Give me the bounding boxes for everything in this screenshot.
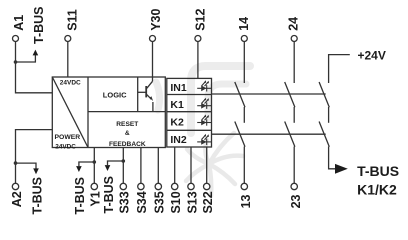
svg-text:A1: A1	[12, 15, 26, 31]
svg-text:A2: A2	[10, 191, 24, 207]
svg-text:24VDC: 24VDC	[60, 79, 81, 86]
wire S34	[140, 148, 142, 184]
svg-text:S22: S22	[201, 191, 215, 213]
junction dot Y1	[93, 160, 97, 164]
wire S12	[197, 42, 199, 79]
terminal A2 circle	[12, 183, 18, 189]
wire S33 branch	[108, 148, 124, 184]
wire A1 down	[16, 42, 53, 93]
terminal S34 circle	[138, 183, 144, 189]
contact K2 path 23-24	[285, 82, 295, 183]
svg-text:24: 24	[287, 17, 301, 31]
svg-text:Y30: Y30	[149, 9, 163, 31]
svg-text:S35: S35	[153, 191, 167, 213]
divider power/logic	[87, 77, 89, 148]
wire S22	[206, 147, 208, 183]
wire Y1 branch	[79, 148, 94, 184]
contact K1 path 13-14	[235, 82, 245, 183]
svg-text:&: &	[125, 130, 130, 137]
svg-text:IN1: IN1	[170, 82, 187, 94]
svg-text:S33: S33	[118, 191, 132, 213]
terminal S33 circle	[120, 183, 126, 189]
watermark swirl	[156, 66, 250, 133]
divider IN1/K1	[167, 94, 212, 96]
linkage line K2	[212, 133, 326, 135]
terminal 23 circle	[291, 183, 297, 189]
wire 24 down to contact	[293, 42, 295, 84]
T-BUS up arrow	[33, 50, 39, 56]
divider K2/IN2	[167, 129, 212, 131]
terminal 13 circle	[241, 183, 247, 189]
wire S11	[67, 42, 69, 78]
terminal S12 circle	[195, 36, 201, 42]
terminal A1 circle	[13, 36, 19, 42]
svg-text:S10: S10	[169, 191, 183, 213]
transistor Q1	[138, 81, 153, 111]
junction dot S33	[122, 159, 126, 163]
svg-text:K2: K2	[170, 116, 184, 128]
divider logic bottom	[88, 111, 165, 113]
terminal S22 circle	[204, 183, 210, 189]
module outer box	[52, 77, 165, 148]
svg-text:POWER: POWER	[55, 134, 81, 141]
terminal Y30 circle	[150, 36, 156, 42]
svg-text:S13: S13	[185, 191, 199, 213]
terminal 24 circle	[291, 36, 297, 42]
transistor emitter arrowhead	[150, 96, 153, 101]
svg-text:RESET: RESET	[116, 121, 138, 128]
contact T-BUS path	[319, 82, 335, 169]
watermark flower	[186, 133, 243, 196]
svg-text:FEEDBACK: FEEDBACK	[109, 141, 146, 148]
wire Y30	[152, 42, 154, 82]
svg-text:T-BUS: T-BUS	[30, 177, 44, 215]
svg-text:K1/K2: K1/K2	[357, 182, 397, 198]
IN/K column box	[167, 78, 212, 147]
power diagonal	[52, 77, 88, 148]
junction dot A2	[14, 161, 18, 165]
svg-text:+24V: +24V	[358, 49, 386, 63]
divider K1/K2	[167, 111, 212, 113]
svg-text:23: 23	[289, 194, 303, 208]
T-BUS down arrow (Y1)	[76, 166, 82, 172]
svg-text:24VDC: 24VDC	[55, 144, 76, 151]
LED D1 (IN1)	[197, 80, 211, 91]
svg-text:S34: S34	[135, 191, 149, 213]
T-BUS down arrow (S33)	[105, 165, 111, 171]
svg-text:T-BUS: T-BUS	[32, 7, 46, 45]
svg-text:K1: K1	[170, 99, 184, 111]
svg-text:LOGIC: LOGIC	[103, 91, 127, 100]
terminal S10 circle	[172, 183, 178, 189]
terminal 14 circle	[241, 36, 247, 42]
wire S10	[174, 147, 176, 183]
wire S35	[157, 148, 159, 184]
svg-text:T-BUS: T-BUS	[357, 163, 399, 179]
wire 14 down to contact	[243, 42, 245, 84]
terminal S11 circle	[65, 36, 71, 42]
svg-text:T-BUS: T-BUS	[102, 176, 116, 214]
linkage line K1	[212, 93, 326, 95]
T-BUS down arrow (A2)	[33, 168, 39, 174]
svg-text:T-BUS: T-BUS	[73, 177, 87, 215]
svg-text:IN2: IN2	[170, 134, 187, 146]
LED D3 (K2)	[197, 115, 211, 126]
T-BUS K1/K2 arrow	[335, 164, 348, 174]
wire A2 branch	[16, 130, 53, 184]
wire S13	[190, 147, 192, 183]
terminal S35 circle	[155, 183, 161, 189]
divider logic/transistor	[137, 77, 139, 112]
svg-text:Y1: Y1	[89, 191, 103, 206]
LED D2 (K1)	[197, 98, 211, 109]
svg-text:14: 14	[237, 17, 251, 31]
terminal Y1 circle	[91, 183, 97, 189]
svg-text:S12: S12	[194, 9, 208, 31]
junction dot A1/T-BUS	[14, 60, 18, 64]
LED D4 (IN2)	[197, 134, 211, 145]
svg-text:13: 13	[239, 194, 253, 208]
terminal S13 circle	[188, 183, 194, 189]
wire to T-BUS arrow	[16, 55, 36, 62]
svg-text:S11: S11	[66, 9, 80, 31]
wire +24V corner	[329, 55, 350, 83]
